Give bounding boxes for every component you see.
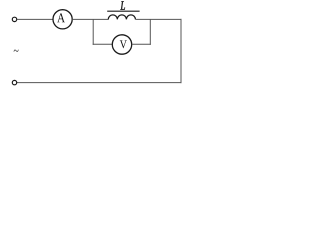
- terminal (top-left input): [12, 17, 16, 21]
- AC source tilde: [14, 50, 19, 52]
- terminal (bottom-left input): [12, 80, 16, 84]
- label L: [120, 1, 125, 9]
- wire (voltmeter branch right vertical): [149, 19, 151, 44]
- inductor L coil: [108, 15, 135, 20]
- wire (voltmeter branch left horizontal): [93, 43, 113, 45]
- voltmeter V: [112, 35, 131, 54]
- wire (ammeter to inductor): [72, 18, 108, 20]
- wire (voltmeter branch left vertical): [92, 19, 94, 44]
- inductor core bar: [107, 10, 139, 12]
- wire (voltmeter branch right horizontal): [132, 43, 151, 45]
- wire (right vertical): [180, 19, 182, 83]
- wire (inductor to right corner): [135, 18, 181, 20]
- wire (bottom return): [17, 82, 182, 84]
- wire (top terminal to ammeter): [17, 18, 53, 20]
- ammeter A: [53, 10, 72, 29]
